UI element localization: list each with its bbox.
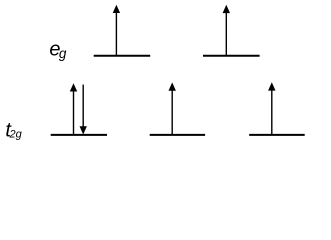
electron up arrow on t2g-2 — [169, 82, 176, 134]
svg-text:g: g — [59, 46, 67, 61]
electron up arrow on eg-1 — [113, 5, 120, 56]
svg-text:2g: 2g — [9, 129, 23, 141]
paired electron up arrow on t2g-1 — [70, 83, 77, 135]
energy level line eg-2 — [203, 55, 260, 57]
label e_g — [49, 39, 67, 61]
electron up arrow on eg-2 — [223, 5, 230, 56]
energy level line eg-1 — [94, 55, 151, 57]
electron up arrow on t2g-3 — [268, 82, 275, 135]
energy level line t2g-2 — [150, 134, 205, 136]
energy level line t2g-1 — [51, 134, 107, 136]
label t_2g — [5, 120, 22, 142]
energy level line t2g-3 — [249, 134, 305, 136]
paired electron down arrow on t2g-1 — [80, 85, 87, 135]
